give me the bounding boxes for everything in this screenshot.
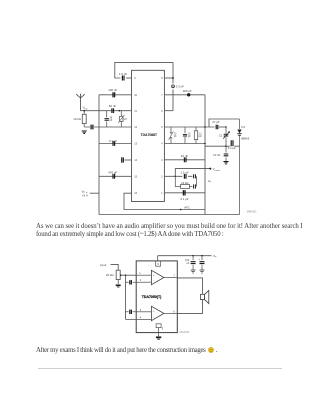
variable inductor left tank (118, 111, 127, 127)
wire pin5 ground stem (158, 328, 160, 337)
node pin5-rail junction (204, 126, 206, 128)
svg-text:+: + (153, 274, 155, 277)
wire Vtuned branch (175, 168, 211, 177)
capacitor 0.1uF at pin13 (109, 139, 117, 146)
wire pin5 line to C1 node (219, 126, 226, 128)
potentiometer 20k (106, 270, 120, 284)
U2 pin 8 notch (156, 261, 161, 266)
wire pin1 inside (136, 272, 151, 275)
ground below 100nF (191, 270, 196, 273)
svg-text:20 kΩ: 20 kΩ (106, 273, 114, 277)
ground below 10k (82, 131, 87, 134)
switch S1 run (194, 174, 196, 178)
capacitor 27pF (212, 120, 220, 129)
svg-text:pF: pF (174, 136, 177, 138)
capacitor 1.5nF at pin2 (180, 170, 188, 178)
paragraph 2 (36, 347, 316, 355)
resistor 1.2k in tank (194, 127, 202, 144)
label input (100, 263, 106, 267)
capacitor 82nF (109, 104, 117, 113)
wire lower direct (126, 318, 137, 320)
capacitor at pin 14 (122, 157, 124, 162)
wire pin 16 to AFC rail (124, 193, 205, 209)
wire pin 10 line (99, 94, 132, 96)
capacitor 180pF on pin7 line (183, 89, 192, 97)
wire pin 15 line (99, 175, 132, 177)
svg-text:6: 6 (161, 109, 163, 113)
wire pin 12 line (84, 126, 131, 128)
wire pin3 inside (136, 309, 151, 312)
wire mid link y145 (205, 145, 240, 147)
svg-text:3: 3 (161, 158, 163, 162)
antenna (76, 94, 84, 111)
wire top loop right vertical (172, 62, 174, 110)
svg-text:5: 5 (161, 125, 163, 129)
label VDD (83, 106, 88, 111)
svg-text:−: − (153, 280, 155, 283)
svg-text:D1: D1 (242, 125, 246, 129)
wire pin 6 stub (164, 110, 173, 112)
wire pin 5 line (164, 126, 214, 128)
capacitor shunt left tank (105, 111, 113, 127)
svg-text:4: 4 (161, 142, 163, 146)
node pin8 junction (172, 77, 174, 79)
U2 pin 5 notch (156, 324, 164, 331)
capacitor 10pF in tank (183, 127, 191, 144)
node AFC tap (180, 209, 182, 211)
svg-text:BB405: BB405 (241, 137, 250, 141)
wire pin8 riser (157, 256, 159, 261)
capacitor 100nF (108, 88, 117, 97)
U1 pin numbers (134, 76, 163, 195)
wire antenna/pin11 line (81, 110, 132, 112)
svg-text:TDA7088T: TDA7088T (141, 133, 159, 137)
svg-text:5: 5 (162, 326, 164, 330)
capacitor 0.1uF at pin1 (181, 190, 189, 201)
svg-text:11: 11 (134, 109, 137, 113)
svg-text:180 pF: 180 pF (183, 89, 192, 93)
node pin4-rail junction (204, 143, 206, 145)
svg-text:AFC: AFC (184, 206, 190, 210)
ground below 10nF (223, 162, 228, 165)
wire pin 1 line (164, 192, 205, 194)
capacitor 3.3nF between pin8 and pin6 (172, 85, 185, 89)
variable capacitor S1 in tank (169, 127, 177, 144)
svg-text:pF: pF (110, 120, 113, 122)
wire right ground rail vertical (204, 95, 206, 215)
capacitor input lower (130, 310, 132, 314)
svg-text:3: 3 (140, 309, 142, 312)
wire Vp entry (90, 192, 99, 194)
svg-text:82 nF: 82 nF (109, 104, 117, 108)
label Vp right (208, 179, 212, 184)
svg-text:10 nF: 10 nF (213, 153, 220, 157)
resistor 22k (181, 181, 190, 189)
svg-text:0.1 µF: 0.1 µF (109, 139, 117, 143)
node rail cap2 (201, 255, 203, 257)
capacitor 470pF (108, 171, 117, 179)
svg-text:10: 10 (134, 93, 137, 97)
svg-text:12: 12 (134, 125, 137, 129)
svg-text:C1: C1 (219, 133, 223, 137)
svg-text:1.5 nF: 1.5 nF (180, 170, 188, 174)
ground below pot (116, 285, 121, 287)
svg-text:22 kΩ: 22 kΩ (181, 181, 188, 185)
node varcap top (118, 110, 120, 112)
node J2 (225, 145, 227, 147)
capacitor series in pin12 line (91, 125, 93, 130)
svg-text:1: 1 (161, 191, 163, 195)
svg-text:1.5 nF: 1.5 nF (119, 72, 127, 76)
wire A1 output (164, 275, 177, 278)
svg-text:+3 V: +3 V (82, 193, 88, 197)
horizontal rule (38, 368, 282, 369)
wire pin 9 stub (126, 77, 132, 79)
capacitor input upper (130, 280, 132, 284)
resistor 10k (73, 111, 86, 127)
node input branch (125, 274, 127, 276)
capacitor 10nF shunt (213, 146, 228, 161)
trimmer capacitor C1 (219, 127, 230, 146)
svg-text:pF: pF (188, 136, 191, 138)
switch S2 reset (194, 184, 196, 188)
wire top loop left (115, 62, 173, 78)
wire pin 13 line (99, 143, 132, 145)
wire cap to pin2 (126, 281, 137, 283)
capacitor 10uF electrolytic (198, 256, 204, 270)
label AFC (184, 206, 190, 210)
wire pin 8 stub (164, 77, 173, 79)
wire Vp rail top (158, 255, 212, 257)
svg-text:+: + (198, 257, 200, 261)
svg-text:MGA612: MGA612 (180, 331, 190, 334)
svg-text:13: 13 (134, 142, 137, 146)
ground below 10uF (200, 270, 205, 273)
node rail cap1 (192, 255, 194, 257)
wire cap to pin3 (126, 311, 137, 313)
svg-text:8: 8 (161, 76, 163, 80)
svg-text:22 nF: 22 nF (181, 154, 189, 158)
wire pin 7 line (164, 94, 205, 96)
wire pin 3 line (164, 159, 205, 161)
svg-text:VP: VP (208, 179, 212, 184)
wire pin6 line (177, 300, 202, 314)
label Vp amp (213, 254, 217, 259)
wire A2 output (164, 310, 177, 313)
node pin11 junction (119, 110, 121, 112)
wire pin 4 line (164, 143, 205, 145)
wire input elbow (111, 264, 119, 270)
wire wiper to pin1 (121, 274, 136, 276)
node 10k junction (83, 110, 85, 112)
wire pin2 inside (136, 279, 151, 282)
svg-text:0.1 µF: 0.1 µF (228, 146, 236, 150)
op-amp A1 triangle (151, 270, 164, 284)
label Vtuned (213, 167, 221, 172)
label Vp supply (82, 190, 88, 198)
wire pin 2 line (164, 175, 192, 177)
wire tank top link (209, 119, 240, 127)
op-amp U1 TDA7088T IC body (132, 70, 165, 201)
svg-text:2: 2 (161, 174, 163, 178)
svg-text:100 nF: 100 nF (108, 88, 117, 92)
svg-text:470 pF: 470 pF (108, 171, 117, 175)
node pot wiper (120, 274, 122, 276)
svg-text:6: 6 (173, 310, 175, 313)
svg-text:14: 14 (134, 158, 137, 162)
ground below U2 (156, 337, 161, 339)
wire pin4 inside (136, 316, 151, 319)
wire left supply rail (98, 95, 100, 215)
svg-text:µH: µH (124, 119, 127, 121)
wire pin 14 stub (124, 159, 131, 161)
svg-text:27 pF: 27 pF (212, 120, 220, 124)
wire 22k loop (175, 176, 196, 186)
wire bottom rail (99, 214, 240, 216)
node J1 (225, 126, 227, 128)
wire pin7 line (177, 278, 202, 294)
svg-text:7: 7 (161, 93, 163, 97)
svg-text:4: 4 (140, 316, 142, 319)
svg-text:input: input (100, 263, 106, 267)
svg-text:8: 8 (157, 262, 159, 266)
svg-text:2: 2 (140, 279, 142, 282)
label sheet id 2 (180, 331, 190, 334)
paragraph 1 (36, 223, 320, 239)
svg-text:kΩ: kΩ (199, 136, 202, 138)
svg-text:+: + (153, 310, 155, 313)
speaker LS1 (201, 290, 209, 303)
varicap diode D1 BB405 (237, 119, 249, 215)
capacitor 1.5nF at pin 9 (119, 72, 127, 81)
capacitor 0.1uF right (228, 140, 236, 150)
wire input vertical (125, 275, 127, 319)
svg-text:16: 16 (134, 191, 137, 195)
svg-text:VDD: VDD (83, 106, 88, 111)
capacitor 22nF (181, 154, 189, 162)
svg-text:0.1 µF: 0.1 µF (181, 197, 189, 201)
svg-text:9: 9 (134, 76, 136, 80)
svg-text:TDA7050(T): TDA7050(T) (142, 295, 161, 299)
svg-text:15: 15 (134, 174, 137, 178)
svg-text:10 kΩ: 10 kΩ (73, 117, 81, 121)
capacitor 100nF decoupling (185, 256, 195, 270)
svg-text:Vtuned: Vtuned (213, 167, 221, 172)
op-amp A2 triangle (151, 306, 164, 320)
svg-text:VP: VP (213, 254, 217, 259)
svg-text:1: 1 (139, 272, 141, 275)
node pin2 junction (175, 176, 177, 178)
label sheet id 1 (247, 210, 257, 213)
svg-text:nF: nF (186, 262, 189, 265)
op-amp U2 TDA7050 IC body (136, 261, 177, 333)
svg-text:MBA402: MBA402 (247, 210, 257, 213)
